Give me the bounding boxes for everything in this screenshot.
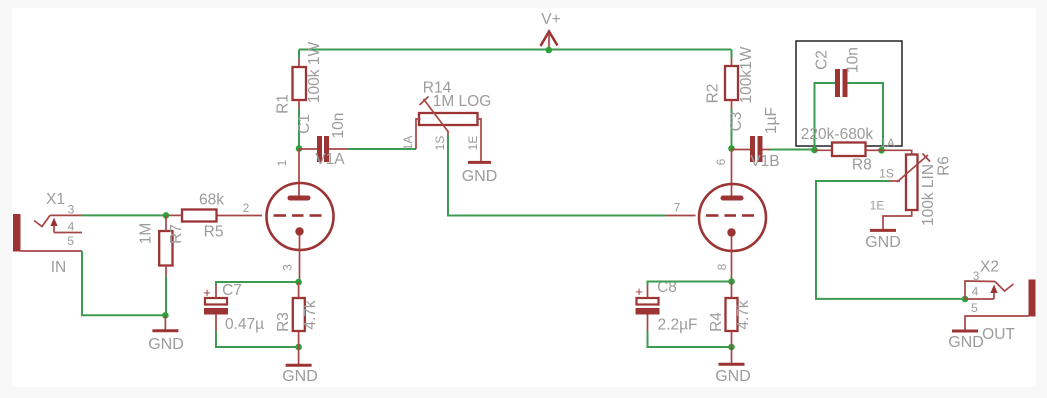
svg-text:R2: R2 [704,84,721,104]
ground GND X1 [148,315,184,353]
pin R6 S [889,180,900,182]
pin R2 pad2 [731,100,733,109]
svg-text:0.47µ: 0.47µ [225,316,264,333]
wire V+ rail [299,49,732,51]
wire C2 right leg [848,83,884,150]
svg-text:1: 1 [275,159,289,166]
connector X2 [990,280,1035,317]
svg-text:4.7k: 4.7k [735,300,752,330]
pin X1 4 [54,232,82,234]
junction node V1B cathode [728,278,735,285]
svg-text:4: 4 [972,285,979,299]
svg-text:GND: GND [462,168,498,185]
pin R8 right [866,149,882,151]
pin R8 left [815,149,833,151]
capacitor C1 [317,136,329,162]
pin R5 left [166,214,182,216]
pin R1 pad1 [298,58,300,67]
pin C7 minus [215,315,217,332]
wire C7 top [216,282,299,285]
pin R14 E [478,119,482,161]
svg-text:C3: C3 [728,112,745,132]
pin R14 A [416,119,421,149]
wire X1 tip to R7 [81,214,166,216]
wire R7 to gnd node [165,276,167,315]
pin V1A cathode 3 [299,236,301,282]
svg-text:V+: V+ [541,11,560,28]
svg-text:10n: 10n [845,47,862,73]
pin C7 plus [215,285,217,298]
svg-text:X2: X2 [980,259,999,276]
svg-text:10n: 10n [330,113,347,139]
junction node V1A anode [296,145,303,152]
pin X2 3 [965,281,995,299]
svg-text:V1A: V1A [315,151,345,168]
wire C8 top [648,282,732,286]
pin R14 S [447,131,449,135]
svg-text:3: 3 [68,203,75,217]
pin C3 right [763,149,771,151]
wire R2 top [731,50,733,59]
pin C8 minus [647,315,649,332]
wire R6 wiper to X2 [816,181,965,299]
svg-text:4.7k: 4.7k [302,300,319,330]
connector X1 [13,214,58,252]
svg-text:R1: R1 [275,94,292,114]
pin X2 5 [965,316,1029,330]
svg-text:8: 8 [715,263,729,270]
pin X1 5 [21,250,83,252]
svg-text:IN: IN [51,259,67,276]
svg-text:R5: R5 [204,224,224,241]
wire R2 bottom [731,109,733,149]
triode V1A [267,183,334,250]
power symbol V+ [541,11,561,50]
pin R3 top [298,282,300,298]
wire C2 left leg [815,83,836,150]
svg-text:OUT: OUT [982,326,1015,343]
pin C3 left [732,149,751,151]
svg-text:2: 2 [243,201,250,215]
svg-text:5: 5 [971,301,978,315]
resistor R7 [159,231,172,266]
capacitor C7 [203,285,228,315]
pin R1 pad2 [298,100,300,109]
wire R14 wiper to V1B grid [448,135,665,216]
svg-text:5: 5 [67,234,74,248]
svg-text:68k: 68k [199,192,224,209]
svg-text:3: 3 [281,264,295,271]
svg-text:R4: R4 [708,312,725,332]
pin C8 plus [647,285,649,298]
wire R1 top [298,50,300,59]
svg-text:2.2µF: 2.2µF [658,317,698,334]
svg-text:R6: R6 [936,156,953,176]
pin X1 3 [50,214,81,216]
svg-text:100k LIN: 100k LIN [920,164,937,226]
ground GND R6 [865,230,901,251]
svg-text:R8: R8 [852,157,872,174]
svg-text:GND: GND [715,368,751,385]
wire R1 bottom to node [298,109,300,149]
resistor R8 [832,143,866,157]
svg-text:+: + [635,284,643,299]
junction node R8 right [878,147,885,154]
pin R6 E [883,210,912,229]
pin C1 left [299,148,317,150]
ground GND R14 [462,162,498,185]
pin R3 bottom [298,331,300,347]
svg-text:4: 4 [68,220,75,234]
svg-text:C7: C7 [222,282,242,299]
junction node R8 left [811,147,818,154]
svg-text:GND: GND [948,334,984,351]
ground GND X2 [948,331,984,351]
svg-text:1A: 1A [880,136,895,150]
svg-text:GND: GND [148,336,184,353]
svg-text:1M LOG: 1M LOG [433,93,492,110]
svg-text:V1B: V1B [750,153,779,170]
junction node grid V1A [163,212,170,219]
pin R7 bottom [165,266,167,277]
potentiometer R14 [419,97,478,132]
resistor R5 [182,210,217,222]
junction node X2 [962,296,969,303]
svg-text:1S: 1S [879,167,894,181]
pin R7 top [165,215,167,231]
svg-text:3: 3 [973,269,980,283]
highlight box around C2 [796,41,902,146]
resistor R1 [293,67,307,100]
svg-text:R7: R7 [168,224,185,244]
svg-text:6: 6 [714,158,728,165]
pin C1 right [329,148,348,150]
resistor R2 [725,66,738,100]
pin V1B grid 7 [665,215,696,217]
capacitor C3 [750,136,763,162]
wire C3 to R8 [770,149,815,151]
junction node V1A cathode [295,279,302,286]
svg-text:GND: GND [282,368,318,385]
pin V1A grid 2 [217,215,262,217]
svg-text:100k 1W: 100k 1W [306,42,323,104]
svg-text:220k-680k: 220k-680k [801,126,874,143]
junction node V1B anode [728,145,735,152]
pin R6 A [882,150,912,154]
junction node R3 bottom [295,344,302,351]
pin V1A anode 1 [298,149,300,197]
resistor R3 [293,298,305,331]
svg-text:C1: C1 [296,114,313,134]
junction node R4 bottom [728,344,735,351]
resistor R4 [726,298,738,331]
ground GND R4 [715,347,751,385]
pin X2 4 [965,298,994,300]
pin R4 top [731,282,733,299]
potentiometer R6 [897,154,930,211]
svg-text:C2: C2 [814,50,831,70]
svg-text:1A: 1A [401,136,415,151]
pin V1B anode 6 [731,149,733,196]
junction node X1 gnd [162,312,169,319]
pin V1B cathode 8 [731,237,733,282]
ground GND R3 [282,347,318,385]
svg-text:1E: 1E [466,136,480,151]
svg-text:R3: R3 [275,312,292,332]
svg-text:100k1W: 100k1W [738,46,755,103]
svg-text:1S: 1S [433,136,447,151]
junction node V+ rail [546,47,553,54]
svg-text:1E: 1E [870,199,885,213]
wire C8 bottom [648,331,732,347]
wire C7 bottom [216,331,299,347]
triode V1B [699,184,766,251]
wire X1 sleeve to gnd [82,251,166,315]
svg-text:X1: X1 [46,191,65,208]
pin R4 bottom [731,331,733,347]
pin R2 pad1 [731,58,733,66]
svg-text:1M: 1M [138,223,155,245]
svg-text:1µF: 1µF [763,107,780,134]
svg-text:+: + [203,285,211,300]
capacitor C2 [835,69,848,97]
svg-text:7: 7 [674,201,681,215]
capacitor C8 [635,284,659,315]
wire C1 to R14 [348,148,416,150]
svg-text:GND: GND [865,234,901,251]
